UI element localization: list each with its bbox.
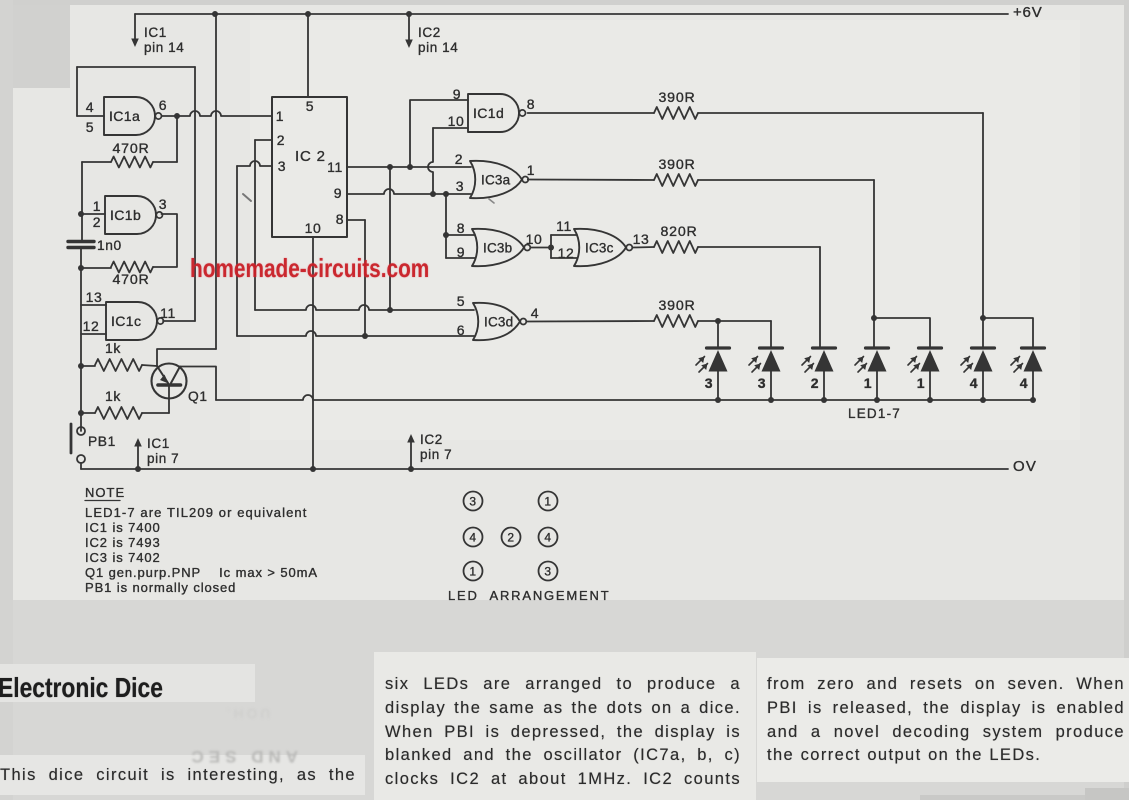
svg-text:IC3b: IC3b xyxy=(483,240,512,255)
svg-text:1k: 1k xyxy=(105,388,121,404)
svg-text:IC1b: IC1b xyxy=(110,207,141,223)
svg-text:390R: 390R xyxy=(658,90,695,106)
svg-text:2: 2 xyxy=(455,151,463,167)
svg-text:IC3d: IC3d xyxy=(484,314,513,329)
svg-text:NOTE: NOTE xyxy=(85,485,125,500)
svg-text:6: 6 xyxy=(159,97,167,113)
svg-text:2: 2 xyxy=(811,375,819,391)
svg-text:1: 1 xyxy=(527,162,535,178)
svg-text:IC1 is 7400: IC1 is 7400 xyxy=(85,520,161,535)
svg-text:PB1 is normally closed: PB1 is normally closed xyxy=(85,580,236,595)
svg-text:IC1c: IC1c xyxy=(111,313,141,329)
svg-text:IC1: IC1 xyxy=(147,436,170,451)
svg-text:390R: 390R xyxy=(658,157,695,173)
svg-text:IC 2: IC 2 xyxy=(295,148,326,165)
svg-text:8: 8 xyxy=(527,96,535,112)
svg-text:LED ARRANGEMENT: LED ARRANGEMENT xyxy=(448,588,610,603)
svg-text:390R: 390R xyxy=(658,298,695,314)
svg-text:10: 10 xyxy=(526,231,543,247)
svg-text:2: 2 xyxy=(277,132,285,148)
svg-text:LED1-7 are TIL209 or equivalen: LED1-7 are TIL209 or equivalent xyxy=(85,505,307,520)
svg-text:2: 2 xyxy=(93,214,101,230)
svg-text:Q1 gen.purp.PNP Ic max > 50: Q1 gen.purp.PNP Ic max > 50mA xyxy=(85,565,318,580)
svg-text:470R: 470R xyxy=(112,141,149,157)
svg-text:4: 4 xyxy=(544,531,551,545)
svg-text:9: 9 xyxy=(453,86,461,102)
svg-text:Q1: Q1 xyxy=(188,389,208,404)
svg-text:4: 4 xyxy=(531,305,539,321)
svg-text:OV: OV xyxy=(1013,458,1037,475)
svg-text:IC2 is 7493: IC2 is 7493 xyxy=(85,535,161,550)
svg-text:1: 1 xyxy=(544,495,551,509)
svg-text:3: 3 xyxy=(456,178,464,194)
svg-text:1: 1 xyxy=(917,375,925,391)
svg-text:1: 1 xyxy=(469,565,476,579)
svg-text:3: 3 xyxy=(705,375,713,391)
svg-text:11: 11 xyxy=(556,218,572,234)
svg-text:820R: 820R xyxy=(660,224,697,240)
svg-text:IC2: IC2 xyxy=(418,25,441,40)
svg-text:8: 8 xyxy=(457,220,465,236)
svg-text:13: 13 xyxy=(86,289,103,305)
svg-text:IC1: IC1 xyxy=(144,25,167,40)
svg-text:IC3a: IC3a xyxy=(481,172,511,187)
svg-text:IC3 is 7402: IC3 is 7402 xyxy=(85,550,161,565)
svg-text:8: 8 xyxy=(336,211,344,227)
svg-text:1n0: 1n0 xyxy=(97,238,122,253)
svg-text:pin 14: pin 14 xyxy=(418,40,458,55)
svg-text:11: 11 xyxy=(327,159,343,175)
svg-text:2: 2 xyxy=(507,531,514,545)
svg-text:470R: 470R xyxy=(112,272,149,288)
svg-text:pin 7: pin 7 xyxy=(420,447,452,462)
svg-text:+6V: +6V xyxy=(1013,4,1043,21)
svg-text:1k: 1k xyxy=(105,340,121,356)
svg-text:LED1-7: LED1-7 xyxy=(848,406,901,421)
svg-text:IC1d: IC1d xyxy=(473,105,504,121)
svg-text:1: 1 xyxy=(93,198,101,214)
svg-text:IC1a: IC1a xyxy=(109,108,140,124)
svg-text:12: 12 xyxy=(83,318,100,334)
svg-text:IC3c: IC3c xyxy=(585,240,614,255)
svg-text:11: 11 xyxy=(160,305,176,321)
svg-text:3: 3 xyxy=(758,375,766,391)
svg-text:5: 5 xyxy=(86,119,94,135)
svg-text:5: 5 xyxy=(457,293,465,309)
svg-text:9: 9 xyxy=(334,185,342,201)
svg-text:4: 4 xyxy=(970,375,978,391)
svg-text:12: 12 xyxy=(558,245,575,261)
svg-text:3: 3 xyxy=(469,495,476,509)
svg-text:4: 4 xyxy=(86,99,94,115)
svg-text:3: 3 xyxy=(278,158,286,174)
svg-text:10: 10 xyxy=(305,220,322,236)
svg-text:4: 4 xyxy=(1020,375,1028,391)
svg-text:13: 13 xyxy=(633,231,650,247)
svg-text:10: 10 xyxy=(448,113,465,129)
svg-text:3: 3 xyxy=(159,196,167,212)
svg-text:1: 1 xyxy=(864,375,872,391)
svg-text:IC2: IC2 xyxy=(420,432,443,447)
svg-text:pin 7: pin 7 xyxy=(147,451,179,466)
svg-text:1: 1 xyxy=(276,108,284,124)
svg-text:4: 4 xyxy=(469,531,476,545)
svg-text:6: 6 xyxy=(457,322,465,338)
svg-text:pin 14: pin 14 xyxy=(144,40,184,55)
svg-text:5: 5 xyxy=(306,98,314,114)
svg-text:PB1: PB1 xyxy=(88,434,116,449)
svg-text:3: 3 xyxy=(544,565,551,579)
